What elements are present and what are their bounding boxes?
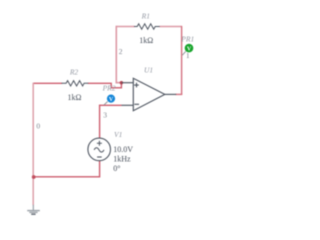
- op-amp U1 minus input pin: [122, 104, 134, 106]
- wire net2 top feedback right segment: [159, 26, 181, 28]
- svg-text:R1: R1: [141, 11, 150, 20]
- resistor R1: [134, 24, 160, 29]
- op-amp U1 minus sign: [134, 103, 139, 105]
- V1 sine symbol: [94, 148, 104, 152]
- svg-text:1: 1: [186, 51, 190, 60]
- svg-text:1kΩ: 1kΩ: [68, 93, 82, 102]
- svg-text:10.0V: 10.0V: [113, 145, 133, 154]
- junction dot at ground net: [32, 175, 36, 179]
- svg-text:PR1: PR1: [180, 34, 194, 43]
- svg-text:0: 0: [36, 122, 40, 131]
- probe PR1 pointer: [182, 51, 186, 55]
- svg-text:V1: V1: [114, 130, 122, 139]
- svg-text:PR2: PR2: [102, 84, 116, 93]
- svg-text:1kΩ: 1kΩ: [139, 36, 153, 45]
- wire R2 input horizontal from left corner: [33, 82, 62, 84]
- junction dot at op-amp plus input: [120, 81, 123, 84]
- op-amp U1 plus sign: [134, 83, 139, 88]
- probe PR2: [104, 95, 115, 106]
- wire bottom horizontal V1 to ground net: [33, 176, 99, 178]
- wire V1 bottom vertical: [99, 161, 101, 178]
- wire node3 minus input horizontal: [100, 104, 122, 106]
- wire node1 output segment: [176, 93, 183, 95]
- probe PR2 pointer: [104, 102, 108, 106]
- svg-text:1kHz: 1kHz: [113, 155, 131, 164]
- ground: [27, 205, 40, 214]
- svg-text:2: 2: [119, 47, 123, 56]
- voltage source V1: [88, 138, 111, 161]
- wire R2 right with jog to junction: [88, 83, 122, 88]
- svg-text:U1: U1: [144, 66, 153, 75]
- svg-text:3: 3: [103, 111, 107, 120]
- wire node1 right vertical (output to feedback): [181, 26, 183, 95]
- svg-text:R2: R2: [69, 68, 79, 77]
- V1 plus sign: [97, 141, 102, 146]
- svg-text:V: V: [109, 97, 114, 103]
- probe PR1: [182, 44, 193, 55]
- V1 minus sign: [97, 156, 102, 158]
- svg-text:0°: 0°: [113, 164, 120, 173]
- resistor R2: [62, 81, 89, 86]
- op-amp U1 plus input pin: [121, 82, 133, 84]
- op-amp U1: [121, 78, 176, 110]
- wire node0 left vertical down to ground: [32, 83, 34, 206]
- wire net2 top feedback horizontal: [116, 26, 134, 28]
- op-amp U1 output pin: [165, 93, 176, 95]
- wire net2 left vertical: [116, 26, 121, 83]
- wire node3 vertical to V1 top: [99, 105, 101, 139]
